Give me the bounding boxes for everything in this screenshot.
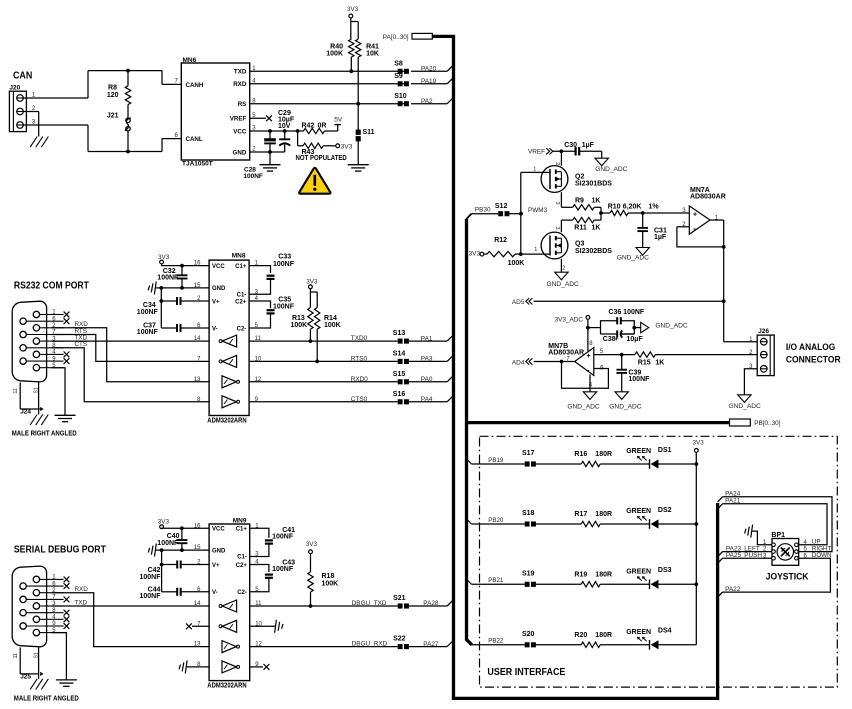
svg-text:SERIAL DEBUG PORT: SERIAL DEBUG PORT: [14, 545, 106, 556]
svg-text:AD5: AD5: [512, 299, 525, 306]
svg-text:AD4: AD4: [512, 359, 525, 366]
svg-text:C33: C33: [278, 254, 291, 261]
svg-text:5V: 5V: [334, 117, 343, 124]
svg-text:C1-: C1-: [237, 292, 247, 298]
svg-text:180R: 180R: [595, 451, 612, 458]
svg-text:S16: S16: [393, 391, 406, 398]
svg-text:V-: V-: [212, 326, 218, 332]
svg-text:MALE RIGHT ANGLED: MALE RIGHT ANGLED: [12, 430, 77, 437]
svg-text:PA4: PA4: [421, 396, 433, 403]
svg-text:13: 13: [194, 377, 201, 383]
svg-text:RS: RS: [238, 101, 247, 108]
svg-text:10µF: 10µF: [627, 336, 644, 343]
svg-text:100K: 100K: [290, 322, 307, 329]
svg-text:GND_ADC: GND_ADC: [595, 166, 627, 173]
svg-text:100NF: 100NF: [273, 261, 295, 268]
svg-text:VREF: VREF: [528, 149, 545, 156]
svg-text:R9: R9: [575, 198, 584, 205]
svg-text:R18: R18: [322, 573, 335, 580]
svg-text:100NF: 100NF: [140, 574, 162, 581]
svg-text:100NF: 100NF: [137, 309, 159, 316]
svg-text:GREEN: GREEN: [626, 448, 651, 455]
svg-text:PA25: PA25: [726, 552, 742, 559]
svg-text:R16: R16: [574, 451, 587, 458]
svg-text:GREEN: GREEN: [626, 629, 651, 636]
svg-text:PA22: PA22: [725, 586, 741, 593]
svg-text:TXD: TXD: [234, 69, 247, 76]
svg-text:+: +: [587, 353, 591, 360]
svg-text:120: 120: [107, 92, 119, 99]
svg-text:100K: 100K: [508, 260, 525, 267]
svg-text:3V3: 3V3: [347, 6, 359, 13]
svg-text:SI2302BDS: SI2302BDS: [575, 248, 612, 255]
svg-text:S14: S14: [393, 351, 406, 358]
svg-text:RXD0: RXD0: [351, 376, 368, 383]
svg-text:3V3_ADC: 3V3_ADC: [555, 316, 584, 323]
svg-text:3V3: 3V3: [469, 250, 481, 257]
svg-text:SI2301BDS: SI2301BDS: [575, 181, 612, 188]
svg-text:ADM3202ARN: ADM3202ARN: [207, 683, 246, 690]
svg-text:RS232 COM PORT: RS232 COM PORT: [14, 281, 89, 292]
svg-text:J24: J24: [20, 408, 31, 415]
svg-text:PB21: PB21: [488, 577, 504, 584]
svg-text:PUSH: PUSH: [744, 552, 762, 559]
svg-text:3V3: 3V3: [306, 279, 318, 286]
svg-text:100NF: 100NF: [273, 304, 295, 311]
svg-text:J21: J21: [107, 113, 119, 120]
svg-text:NOT POPULATED: NOT POPULATED: [296, 155, 347, 162]
svg-text:CANL: CANL: [186, 136, 203, 143]
svg-text:C40: C40: [167, 533, 180, 540]
svg-text:100NF: 100NF: [137, 329, 159, 336]
svg-text:VCC: VCC: [212, 527, 225, 533]
svg-text:PB[0..30]: PB[0..30]: [754, 420, 781, 427]
svg-text:DS3: DS3: [658, 567, 672, 574]
svg-text:GND: GND: [233, 149, 247, 156]
svg-text:1%: 1%: [649, 203, 660, 210]
svg-text:DOWN: DOWN: [812, 552, 832, 559]
svg-text:C2+: C2+: [236, 563, 248, 569]
svg-text:1K: 1K: [592, 225, 601, 232]
svg-text:ADM3202ARN: ADM3202ARN: [207, 418, 246, 425]
svg-text:PA1: PA1: [421, 335, 433, 342]
svg-text:DS2: DS2: [658, 507, 672, 514]
svg-text:14: 14: [194, 601, 201, 607]
svg-text:13: 13: [194, 642, 201, 648]
svg-text:TXD0: TXD0: [351, 335, 368, 342]
svg-text:MALE RIGHT ANGLED: MALE RIGHT ANGLED: [14, 695, 79, 702]
svg-text:0R: 0R: [318, 123, 327, 130]
svg-text:PB20: PB20: [488, 517, 504, 524]
svg-text:180R: 180R: [595, 511, 612, 518]
svg-text:R17: R17: [574, 511, 587, 518]
svg-text:PA3: PA3: [421, 356, 433, 363]
svg-text:100NF: 100NF: [157, 540, 179, 547]
svg-text:C2-: C2-: [237, 590, 247, 596]
svg-text:CAN: CAN: [13, 70, 32, 82]
svg-text:3: 3: [554, 227, 560, 230]
svg-text:GND_ADC: GND_ADC: [547, 281, 579, 288]
svg-text:C35: C35: [278, 296, 291, 303]
svg-text:S9: S9: [394, 73, 403, 80]
svg-text:1: 1: [533, 167, 536, 173]
svg-text:11: 11: [13, 388, 19, 393]
svg-text:PB19: PB19: [488, 457, 504, 464]
svg-text:CTS0: CTS0: [351, 396, 368, 403]
svg-text:VCC: VCC: [212, 264, 225, 270]
svg-text:CTS: CTS: [75, 341, 88, 348]
svg-text:S13: S13: [393, 330, 406, 337]
svg-text:V+: V+: [212, 563, 220, 569]
svg-text:R11: R11: [574, 225, 587, 232]
svg-text:PB22: PB22: [488, 638, 504, 645]
svg-text:S18: S18: [522, 510, 535, 517]
svg-text:RTS0: RTS0: [351, 356, 368, 363]
svg-text:TJA1050T: TJA1050T: [182, 160, 213, 167]
svg-text:S1: S1: [34, 387, 40, 393]
svg-text:AD8030AR: AD8030AR: [690, 194, 726, 201]
svg-text:S12: S12: [495, 203, 508, 210]
svg-text:TXD: TXD: [75, 599, 88, 606]
svg-text:C36 100NF: C36 100NF: [608, 309, 645, 316]
svg-text:GND: GND: [212, 286, 226, 292]
svg-text:R42: R42: [302, 123, 315, 130]
svg-text:R15: R15: [638, 360, 651, 367]
svg-text:S8: S8: [394, 61, 403, 68]
svg-text:DS1: DS1: [658, 447, 672, 454]
svg-text:14: 14: [194, 336, 201, 342]
svg-text:Q3: Q3: [575, 241, 584, 248]
svg-text:V-: V-: [212, 590, 218, 596]
svg-text:10V: 10V: [278, 123, 291, 130]
svg-text:GREEN: GREEN: [626, 569, 651, 576]
svg-text:1µF: 1µF: [654, 234, 667, 241]
svg-text:3V3: 3V3: [341, 143, 353, 150]
svg-text:V+: V+: [212, 299, 220, 305]
svg-text:R14: R14: [324, 315, 337, 322]
svg-text:USER INTERFACE: USER INTERFACE: [487, 667, 565, 678]
svg-text:MN8: MN8: [232, 253, 246, 260]
svg-text:C1+: C1+: [235, 264, 247, 270]
svg-text:I/O ANALOG: I/O ANALOG: [786, 342, 835, 353]
svg-text:2: 2: [554, 162, 560, 165]
svg-text:1K: 1K: [655, 360, 664, 367]
svg-text:3: 3: [554, 202, 560, 205]
svg-text:6,20K: 6,20K: [623, 203, 642, 210]
svg-text:CONNECTOR: CONNECTOR: [786, 355, 841, 366]
svg-text:PWM3: PWM3: [528, 207, 548, 214]
svg-text:100K: 100K: [324, 322, 341, 329]
svg-text:C1+: C1+: [236, 527, 248, 533]
svg-text:J20: J20: [9, 84, 20, 91]
svg-text:100NF: 100NF: [272, 534, 294, 541]
svg-text:100NF: 100NF: [140, 593, 162, 600]
svg-text:100K: 100K: [322, 580, 339, 587]
svg-text:R10: R10: [608, 203, 621, 210]
svg-text:GREEN: GREEN: [626, 508, 651, 515]
svg-text:C2-: C2-: [237, 326, 247, 332]
svg-text:R20: R20: [574, 632, 587, 639]
svg-text:GND_ADC: GND_ADC: [655, 322, 687, 329]
svg-text:Q2: Q2: [575, 173, 584, 180]
svg-text:100NF: 100NF: [157, 275, 179, 282]
svg-text:3V3: 3V3: [158, 254, 170, 261]
svg-text:S20: S20: [522, 631, 535, 638]
svg-text:S19: S19: [522, 571, 535, 578]
svg-text:+: +: [615, 336, 619, 343]
svg-text:C2+: C2+: [235, 299, 247, 305]
svg-text:DBGU_TXD: DBGU_TXD: [352, 600, 387, 607]
svg-text:3V3: 3V3: [306, 541, 318, 548]
svg-text:GND_ADC: GND_ADC: [609, 404, 641, 411]
svg-text:1K: 1K: [592, 198, 601, 205]
svg-text:180R: 180R: [595, 632, 612, 639]
svg-text:JOYSTICK: JOYSTICK: [766, 571, 809, 582]
svg-text:S10: S10: [394, 93, 407, 100]
svg-text:-: -: [693, 224, 696, 233]
svg-text:MN9: MN9: [233, 518, 247, 525]
svg-text:1: 1: [534, 247, 537, 253]
svg-text:GND_ADC: GND_ADC: [729, 403, 761, 410]
svg-text:RXD: RXD: [233, 81, 247, 88]
svg-text:CANH: CANH: [186, 82, 204, 89]
svg-text:GND: GND: [212, 548, 226, 554]
svg-text:PA0: PA0: [421, 376, 433, 383]
svg-text:S15: S15: [393, 371, 406, 378]
svg-text:J26: J26: [758, 328, 769, 335]
svg-text:R12: R12: [494, 237, 507, 244]
svg-text:180R: 180R: [595, 572, 612, 579]
svg-text:100NF: 100NF: [628, 376, 650, 383]
svg-text:S22: S22: [393, 636, 406, 643]
svg-text:100K: 100K: [326, 51, 343, 58]
svg-text:DS4: DS4: [658, 628, 672, 635]
svg-text:3V3: 3V3: [693, 439, 705, 446]
svg-text:2: 2: [562, 265, 565, 271]
svg-text:J25: J25: [20, 673, 31, 680]
svg-text:1µF: 1µF: [582, 142, 595, 149]
svg-text:S17: S17: [522, 450, 535, 457]
svg-text:R19: R19: [574, 572, 587, 579]
svg-text:PA28: PA28: [423, 600, 439, 607]
svg-text:S1: S1: [34, 652, 40, 658]
svg-text:C38: C38: [603, 336, 616, 343]
svg-text:MN6: MN6: [183, 57, 197, 64]
svg-text:100NF: 100NF: [243, 173, 263, 180]
svg-text:R13: R13: [292, 315, 305, 322]
svg-text:100NF: 100NF: [272, 566, 294, 573]
svg-text:S11: S11: [363, 129, 375, 136]
svg-text:RXD: RXD: [75, 586, 89, 593]
svg-text:11: 11: [13, 653, 19, 658]
svg-text:S21: S21: [393, 595, 406, 602]
svg-text:C30: C30: [564, 142, 577, 149]
svg-text:PB30: PB30: [475, 207, 491, 214]
svg-text:DBGU_RXD: DBGU_RXD: [352, 641, 388, 648]
svg-text:3V3: 3V3: [158, 518, 170, 525]
svg-text:PA[0..30]: PA[0..30]: [383, 34, 409, 41]
svg-text:GND_ADC: GND_ADC: [567, 404, 599, 411]
svg-text:10K: 10K: [366, 51, 379, 58]
svg-text:VCC: VCC: [233, 128, 247, 135]
svg-text:PA27: PA27: [423, 641, 439, 648]
svg-text:GND_ADC: GND_ADC: [617, 255, 649, 262]
svg-text:R8: R8: [108, 84, 117, 91]
svg-text:C1-: C1-: [237, 555, 247, 561]
svg-text:VREF: VREF: [230, 116, 247, 123]
svg-text:PA21: PA21: [725, 497, 741, 504]
svg-text:-: -: [587, 366, 590, 375]
svg-text:+: +: [693, 211, 697, 218]
